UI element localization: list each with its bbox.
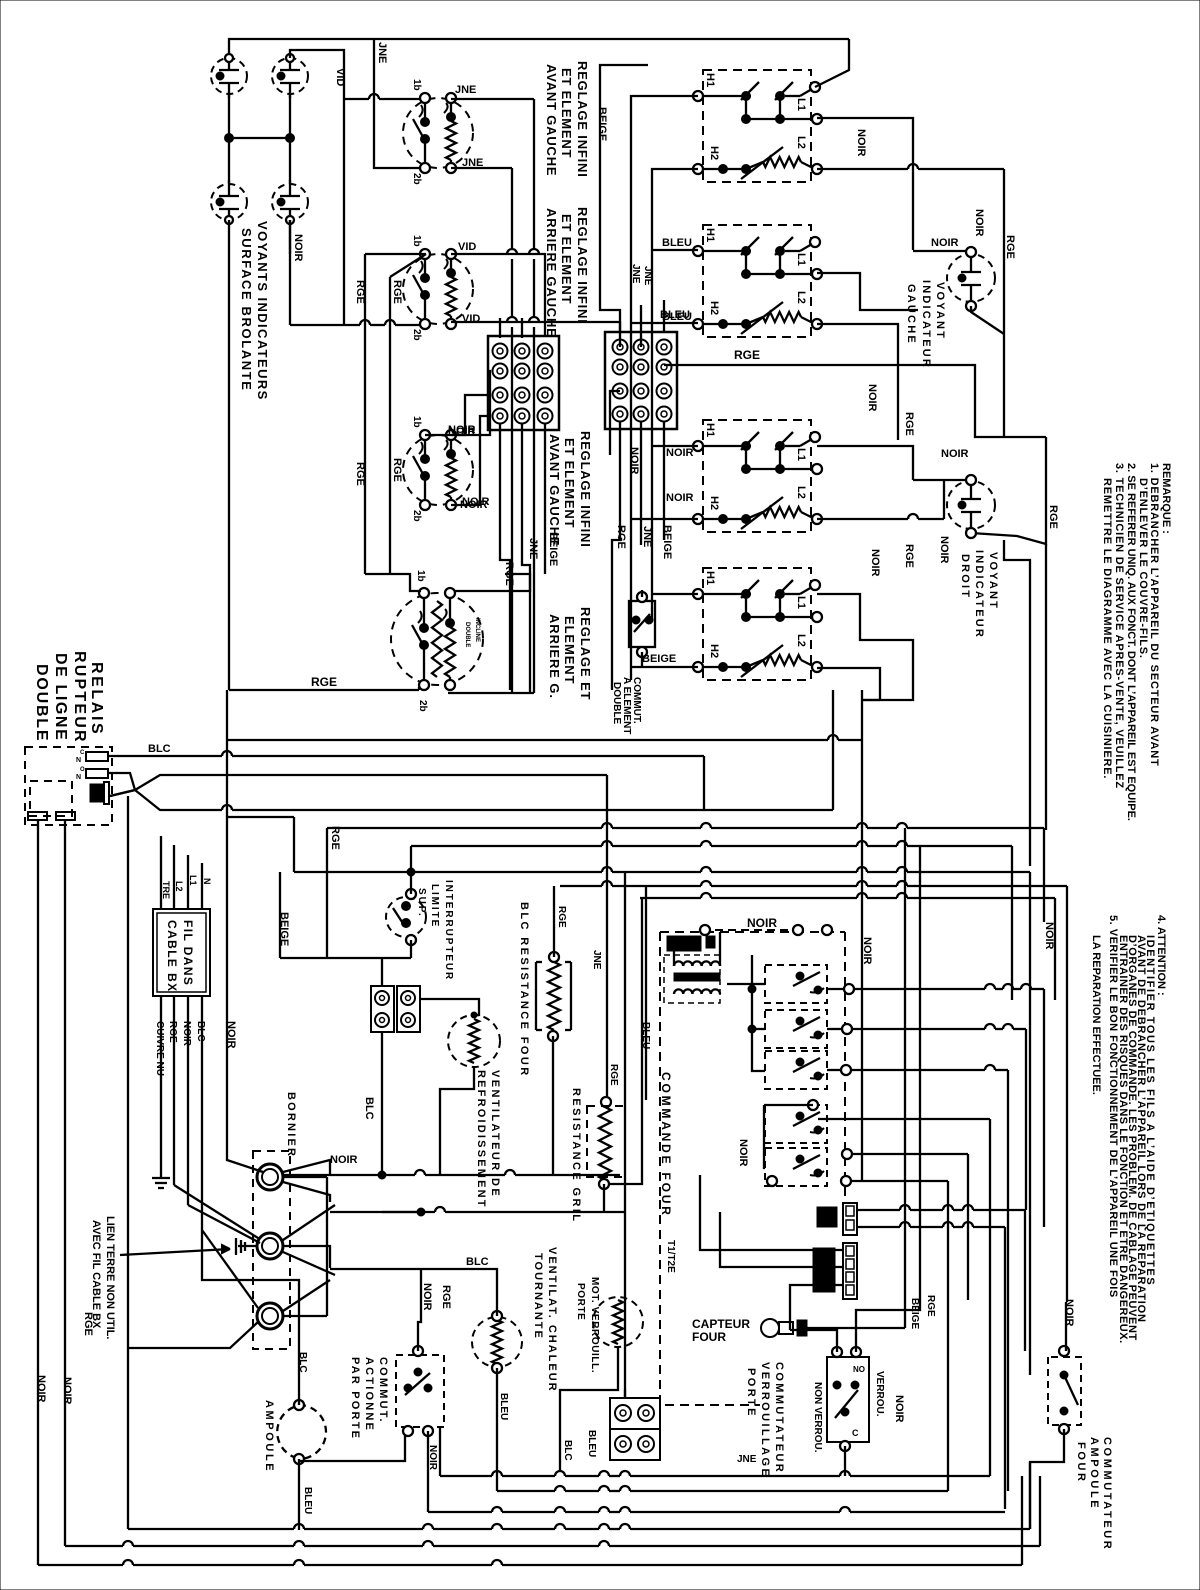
wire S2 2b VID out bbox=[451, 322, 620, 332]
wire stub y817 to x294 bbox=[227, 816, 294, 818]
wire E3 L2 bbox=[817, 518, 908, 520]
svg-text:NO: NO bbox=[853, 1365, 865, 1374]
svg-text:INCLINE: INCLINE bbox=[474, 618, 480, 642]
wire E4 L1 step down bbox=[817, 594, 913, 690]
wire bottom bus y1562 right hook bbox=[1021, 1476, 1023, 1565]
svg-text:RUPTEUR: RUPTEUR bbox=[71, 651, 88, 744]
wire fan chaleur bottom BLEU bbox=[496, 1368, 498, 1491]
svg-text:BLC: BLC bbox=[195, 1021, 206, 1042]
wire drops from E boxes to risers bbox=[862, 690, 913, 700]
svg-text:RGE: RGE bbox=[734, 348, 760, 362]
svg-text:REGLAGE ET: REGLAGE ET bbox=[578, 607, 593, 701]
wire NOIR riser x862 long bbox=[861, 740, 863, 1181]
svg-text:AVANT GAUCHE: AVANT GAUCHE bbox=[544, 64, 559, 176]
svg-text:NOIR: NOIR bbox=[292, 234, 304, 262]
svg-text:L1: L1 bbox=[795, 596, 807, 609]
svg-text:NOIR: NOIR bbox=[330, 1154, 358, 1166]
svg-text:NOIR: NOIR bbox=[931, 237, 959, 249]
transformer box dashed bbox=[664, 955, 720, 1003]
wire JNE riser x607 bbox=[606, 775, 608, 1102]
transformer T1 core bars bbox=[674, 973, 720, 981]
wire bottom bus y1476 bbox=[439, 1427, 441, 1476]
svg-text:H2: H2 bbox=[708, 644, 720, 658]
wire lamp DS4 drop long bbox=[289, 220, 291, 325]
svg-text:BLEU: BLEU bbox=[498, 1393, 509, 1420]
wire fan from bornier T1 bbox=[283, 1160, 330, 1175]
wire commut double links bbox=[641, 652, 643, 667]
wire JNE top rail bbox=[229, 39, 849, 58]
wire resistance four top RGE bbox=[553, 886, 555, 957]
svg-text:LIEN TERRE NON UTIL.: LIEN TERRE NON UTIL. bbox=[104, 1216, 116, 1339]
svg-text:BLC RESISTANCE FOUR: BLC RESISTANCE FOUR bbox=[518, 902, 530, 1078]
svg-text:VOYANT: VOYANT bbox=[934, 282, 946, 340]
svg-text:RGE: RGE bbox=[556, 906, 567, 928]
wire diagonal into T2 from left bbox=[174, 1185, 258, 1238]
wire lamp VD top NOIR bbox=[913, 479, 966, 481]
wire lower relay feeds bbox=[764, 1105, 765, 1168]
wire S4 bottom 2b link bbox=[418, 687, 420, 690]
svg-text:PORTE: PORTE bbox=[745, 1368, 757, 1418]
wire ampoule switch riser bbox=[1065, 1302, 1067, 1351]
wire bus step x703 bbox=[703, 756, 705, 811]
element switch box E4 bbox=[703, 568, 811, 680]
svg-text:LIMITE: LIMITE bbox=[429, 884, 440, 928]
wire resistance four bottom bbox=[552, 1036, 554, 1175]
wire fan chaleur top bbox=[496, 1302, 498, 1316]
svg-text:ARRIERE GAUCHE: ARRIERE GAUCHE bbox=[544, 208, 559, 338]
svg-text:BEIGE: BEIGE bbox=[547, 532, 559, 566]
svg-text:VOYANT: VOYANT bbox=[987, 552, 999, 610]
svg-text:COMMUT.: COMMUT. bbox=[377, 1357, 389, 1424]
svg-text:REFROIDISSEMENT: REFROIDISSEMENT bbox=[475, 1070, 487, 1209]
wire bottom bus y1529 right hook bbox=[1029, 1462, 1031, 1529]
svg-text:ACTIONNE: ACTIONNE bbox=[363, 1357, 375, 1432]
svg-text:C: C bbox=[80, 750, 85, 756]
wire bottom bus y1491 bbox=[497, 1490, 555, 1492]
wire S2 VID to block bbox=[451, 254, 545, 336]
wire res gril bottom bbox=[603, 1184, 605, 1212]
wire RGE bottom rail of surface section bbox=[229, 689, 419, 691]
relay terminal O N bbox=[86, 769, 108, 778]
svg-text:ET ELEMENT: ET ELEMENT bbox=[559, 68, 574, 158]
wire ampoule switch bottom bbox=[1030, 1429, 1064, 1529]
wire lamp DS1-DS3 link bbox=[228, 94, 230, 184]
svg-text:FOUR: FOUR bbox=[1075, 1442, 1087, 1484]
connector block CN1 bbox=[371, 986, 394, 1032]
transformer T1 primary coil bbox=[674, 961, 720, 966]
svg-text:VID: VID bbox=[458, 241, 476, 253]
label BLEU riser x646 bbox=[645, 886, 647, 1100]
svg-text:N: N bbox=[76, 774, 81, 781]
wire bus riser x833 from top bbox=[832, 739, 834, 810]
svg-text:NOIR: NOIR bbox=[61, 1377, 73, 1405]
svg-text:C: C bbox=[852, 1428, 859, 1438]
indicator lamp DS3 surface bbox=[211, 184, 247, 220]
wire box E3 H1 feed bbox=[652, 445, 698, 447]
wire E2 L2 RGE bbox=[817, 324, 898, 440]
wire capteur to risers bbox=[807, 1327, 905, 1329]
svg-text:DE LIGNE: DE LIGNE bbox=[52, 653, 69, 741]
wire limite sup riser bbox=[410, 846, 412, 894]
svg-text:N: N bbox=[202, 878, 212, 885]
svg-text:H1: H1 bbox=[704, 228, 716, 242]
svg-text:BLEU: BLEU bbox=[662, 237, 692, 249]
svg-text:RELAIS: RELAIS bbox=[88, 662, 105, 736]
wire B11 lines bbox=[700, 1175, 843, 1250]
wire bus line y740 bbox=[227, 739, 828, 741]
wire VID lamp DS2 riser bbox=[290, 50, 344, 325]
transformer T1 connector blobs bbox=[667, 936, 701, 951]
svg-text:T1/T2E: T1/T2E bbox=[665, 1240, 676, 1273]
indicator lamp DS4 surface bbox=[272, 184, 308, 220]
svg-text:L2: L2 bbox=[795, 136, 807, 149]
svg-text:2b: 2b bbox=[417, 700, 428, 712]
svg-text:NOIR: NOIR bbox=[737, 1139, 749, 1167]
wire bottom rail y1212 bbox=[382, 1211, 435, 1213]
relay K1 coil box bbox=[30, 781, 72, 816]
svg-text:L1: L1 bbox=[795, 448, 807, 461]
wire beige riser left of boxes bbox=[631, 96, 698, 680]
wire bornier riser x327 bbox=[326, 1177, 328, 1316]
svg-text:MOT. VERROUILL.: MOT. VERROUILL. bbox=[589, 1277, 600, 1373]
wire ampoule to commut porte bbox=[299, 1427, 405, 1461]
wire ampoule bottom BLEU bbox=[298, 1459, 300, 1530]
wire rail to bus vertical bbox=[226, 690, 228, 741]
connector B11B11 bbox=[843, 1243, 857, 1299]
wire left bus vertical x294 bbox=[293, 817, 295, 872]
wire motor down bbox=[560, 1347, 618, 1472]
commutateur ampoule four switch bbox=[1048, 1357, 1081, 1425]
wire risers to S4 1b bbox=[365, 574, 421, 591]
relay contact group lower bbox=[765, 1105, 827, 1143]
commutateur verrouillage porte switch bbox=[827, 1357, 869, 1442]
wire E11 lines bbox=[857, 1209, 900, 1211]
wire relay to bottom left NOIR 2 bbox=[64, 820, 66, 1546]
wire box E3 H2 feed bbox=[631, 518, 698, 520]
svg-text:NOIR: NOIR bbox=[448, 426, 476, 438]
infinite switch S3 avant droit bbox=[403, 435, 473, 505]
wire ampoule top BLC bbox=[298, 1380, 300, 1405]
svg-text:D’ENLEVER LE COUVRE-FILS.: D’ENLEVER LE COUVRE-FILS. bbox=[1137, 478, 1149, 659]
svg-text:REGLAGE INFINI: REGLAGE INFINI bbox=[575, 61, 590, 178]
infinite switch S2 arriere gauche bbox=[403, 254, 473, 324]
indicator lamp DS2 surface bbox=[272, 58, 308, 94]
terminal block TB2 bbox=[605, 332, 677, 429]
svg-text:INTERRUPTEUR: INTERRUPTEUR bbox=[443, 880, 454, 981]
connector block CN2 bbox=[397, 986, 420, 1032]
svg-text:L2: L2 bbox=[174, 881, 184, 892]
svg-text:SURFACE BROLANTE: SURFACE BROLANTE bbox=[239, 228, 254, 392]
svg-text:H2: H2 bbox=[708, 146, 720, 160]
svg-text:TOURNANTE: TOURNANTE bbox=[532, 1253, 544, 1340]
svg-text:DOUBLE: DOUBLE bbox=[33, 664, 50, 742]
svg-text:NOIR: NOIR bbox=[973, 209, 985, 237]
svg-text:1b: 1b bbox=[415, 570, 426, 582]
wire top rail drop to switch S1 2b bbox=[374, 39, 421, 168]
wire verrou top feeds bbox=[790, 1330, 837, 1352]
svg-text:VENTILAT. CHALEUR: VENTILAT. CHALEUR bbox=[546, 1247, 558, 1393]
junction dots lamps bbox=[225, 134, 234, 143]
svg-text:INDICATEUR: INDICATEUR bbox=[920, 280, 932, 369]
wire riser x905 x920 top bbox=[904, 828, 906, 1328]
svg-text:L1: L1 bbox=[795, 253, 807, 266]
svg-text:RGE: RGE bbox=[1004, 235, 1016, 259]
svg-text:RGE: RGE bbox=[608, 1064, 619, 1086]
svg-text:2b: 2b bbox=[411, 173, 422, 185]
capteur four sensor bbox=[761, 1319, 779, 1337]
svg-text:1b: 1b bbox=[411, 416, 422, 428]
wire bus verticals right bbox=[1029, 872, 1031, 1375]
svg-text:NOIR: NOIR bbox=[861, 937, 873, 965]
wire riser x652 bbox=[652, 169, 698, 620]
wires out of cable box bottom bbox=[160, 996, 162, 1160]
svg-text:L2: L2 bbox=[795, 291, 807, 304]
relay K1 dashed box bbox=[25, 747, 112, 825]
wire S3 2b NOIR bbox=[451, 416, 488, 505]
svg-text:ET ELEMENT: ET ELEMENT bbox=[559, 214, 574, 304]
wire JNE line bbox=[624, 1390, 626, 1398]
ventilateur de refroidissement fan bbox=[448, 1015, 500, 1067]
svg-text:LA REPARATION EFFECTUEE.: LA REPARATION EFFECTUEE. bbox=[1090, 935, 1102, 1095]
wire NOIR dashed to relays bbox=[715, 929, 790, 931]
svg-text:REMARQUE :: REMARQUE : bbox=[1160, 463, 1172, 534]
ground symbol at bornier bbox=[238, 1245, 257, 1247]
svg-text:NOIR: NOIR bbox=[666, 492, 694, 504]
wire transformer terminals bbox=[700, 925, 710, 935]
svg-text:BEIGE: BEIGE bbox=[909, 1298, 920, 1329]
wire bus line y775 step x607 bbox=[227, 774, 607, 776]
wire bus line y886 bbox=[560, 885, 602, 887]
svg-text:NOIR: NOIR bbox=[35, 1375, 47, 1403]
svg-text:H1: H1 bbox=[704, 571, 716, 585]
wire diagonal into T3 from left bbox=[202, 1230, 258, 1308]
svg-text:AVEC FIL CABLE BX: AVEC FIL CABLE BX bbox=[90, 1220, 102, 1329]
wire bottom bus y1546 right hook bbox=[1039, 1476, 1041, 1546]
wires under TB2 bbox=[612, 421, 620, 690]
wire E4 L2 down bbox=[817, 668, 880, 700]
svg-text:BLEU: BLEU bbox=[586, 1430, 597, 1457]
wire y958 link bbox=[280, 957, 411, 959]
wire RGE riser B bbox=[390, 254, 426, 277]
svg-text:PAR PORTE: PAR PORTE bbox=[349, 1357, 361, 1440]
svg-text:RGE: RGE bbox=[354, 280, 366, 304]
svg-text:CUIVRE NU: CUIVRE NU bbox=[154, 1021, 165, 1076]
svg-text:COMMUTATEUR: COMMUTATEUR bbox=[773, 1362, 785, 1474]
svg-text:CABLE BX: CABLE BX bbox=[165, 920, 179, 993]
terminal block TB1 bbox=[488, 336, 559, 430]
wire connector feed bbox=[381, 958, 383, 986]
wire BLC relay to bus bbox=[108, 755, 222, 757]
wire box E4 H2 feed bbox=[631, 666, 698, 668]
wire rail y325 bbox=[290, 324, 360, 326]
svg-text:COMMUTATEUR: COMMUTATEUR bbox=[1101, 1437, 1113, 1551]
svg-text:FOUR: FOUR bbox=[692, 1330, 726, 1344]
svg-text:BLEU: BLEU bbox=[302, 1487, 313, 1514]
relay contact blob bbox=[90, 784, 104, 802]
svg-text:RGE: RGE bbox=[903, 412, 915, 436]
element switch box E2 bbox=[703, 225, 811, 337]
svg-text:REGLAGE INFINI: REGLAGE INFINI bbox=[575, 207, 590, 324]
wire E2 L1 step bbox=[817, 273, 918, 310]
wire limite sup down bbox=[410, 940, 412, 958]
wire lamp DS2-DS4 link bbox=[289, 94, 291, 184]
relay contact group upper bbox=[765, 965, 827, 1003]
svg-text:NOIR: NOIR bbox=[938, 536, 950, 564]
element switch box E3 bbox=[703, 420, 811, 532]
wire S4 2b link to risers bbox=[448, 692, 534, 694]
svg-text:NOIR: NOIR bbox=[893, 1395, 905, 1423]
svg-text:REGLAGE INFINI: REGLAGE INFINI bbox=[578, 431, 593, 548]
svg-text:BLC: BLC bbox=[363, 1097, 375, 1120]
wire box E2 H1 feed BLEU bbox=[652, 249, 698, 251]
svg-text:BLC: BLC bbox=[466, 1256, 489, 1268]
wire RGE riser 1046 bbox=[971, 437, 1046, 544]
svg-text:COMMANDE FOUR: COMMANDE FOUR bbox=[659, 1072, 673, 1218]
wire E3 L1 to riser bbox=[817, 446, 913, 480]
svg-text:H2: H2 bbox=[708, 301, 720, 315]
svg-text:BLEU: BLEU bbox=[662, 311, 692, 323]
svg-text:RGE: RGE bbox=[311, 675, 337, 689]
ventilat chaleur tournante fan bbox=[472, 1317, 522, 1367]
svg-text:VERROU.: VERROU. bbox=[874, 1371, 885, 1417]
indicator lamp DS1 surface bbox=[211, 58, 247, 94]
svg-text:L2: L2 bbox=[795, 634, 807, 647]
svg-text:JNE: JNE bbox=[455, 84, 476, 96]
wires under TB1 bbox=[500, 423, 510, 690]
svg-text:NOIR: NOIR bbox=[181, 1021, 192, 1047]
wire fan from bornier T2 bbox=[283, 1205, 335, 1240]
svg-text:AMPOULE: AMPOULE bbox=[263, 1400, 275, 1473]
wire S3 right resistor to block bbox=[451, 395, 488, 435]
svg-text:RGE: RGE bbox=[925, 1295, 936, 1317]
svg-text:VERROUILLAGE: VERROUILLAGE bbox=[759, 1362, 771, 1478]
bornier terminal 3 bbox=[257, 1303, 283, 1329]
wire commut porte top bbox=[418, 1269, 421, 1351]
svg-text:VOYANTS INDICATEURS: VOYANTS INDICATEURS bbox=[255, 221, 270, 401]
svg-text:VENTILATEUR DE: VENTILATEUR DE bbox=[489, 1070, 501, 1198]
resistance four resistor bbox=[549, 952, 559, 962]
mot verrouill porte motor bbox=[593, 1297, 643, 1347]
svg-text:NOIR: NOIR bbox=[462, 496, 490, 508]
svg-text:ET ELEMENT: ET ELEMENT bbox=[562, 438, 577, 528]
svg-text:BLC: BLC bbox=[562, 1440, 573, 1461]
wire fan from bornier T3 bbox=[283, 1280, 330, 1311]
svg-text:SUP.: SUP. bbox=[416, 888, 427, 918]
svg-text:RESISTANCE GRIL: RESISTANCE GRIL bbox=[570, 1088, 582, 1223]
svg-text:RGE: RGE bbox=[903, 544, 915, 568]
svg-text:5. VERIFIER LE BON FONCTIONNEM: 5. VERIFIER LE BON FONCTIONNEMENT DE L’A… bbox=[1107, 915, 1119, 1298]
wire bus line y846 bbox=[411, 845, 602, 847]
resistance gril resistor bbox=[601, 1097, 611, 1107]
svg-text:3. TECHNICIEN DE SERVICE APRES: 3. TECHNICIEN DE SERVICE APRES-VENTE, VE… bbox=[1113, 463, 1125, 789]
wire bottom corner to T3 bbox=[127, 1322, 258, 1348]
wire bus drop to control x642 bbox=[610, 897, 642, 1184]
wire lamp junction row bbox=[229, 137, 290, 139]
bornier terminal 2 bbox=[257, 1233, 283, 1259]
svg-text:DOUBLE: DOUBLE bbox=[464, 622, 470, 647]
wire bornier out BLC y1269 bbox=[330, 1269, 497, 1302]
commande four dashed box right bbox=[844, 932, 846, 1200]
wire bottom bus y1509 bbox=[427, 1431, 429, 1512]
wire bus line y898 bbox=[640, 897, 701, 899]
interrupteur limite sup switch bbox=[386, 897, 426, 937]
svg-text:O: O bbox=[80, 767, 85, 773]
svg-text:JNE: JNE bbox=[737, 1454, 757, 1465]
svg-text:2b: 2b bbox=[411, 329, 422, 341]
wire relay right terminals bbox=[844, 984, 854, 994]
wire verrou bottom bbox=[844, 1446, 846, 1476]
svg-text:L1: L1 bbox=[188, 875, 198, 886]
connector block pair CN3 bbox=[610, 1398, 660, 1429]
svg-text:NOIR: NOIR bbox=[941, 448, 969, 460]
wire bus line y810 bbox=[232, 809, 833, 811]
ampoule lamp bbox=[299, 1405, 326, 1459]
ground symbol left of bornier bbox=[160, 1160, 162, 1178]
relay bottom terminal 1 bbox=[28, 812, 47, 820]
connector E11 bbox=[843, 1203, 857, 1235]
bornier dashed box bbox=[253, 1151, 290, 1349]
svg-text:CAPTEUR: CAPTEUR bbox=[692, 1317, 750, 1331]
svg-text:NOIR: NOIR bbox=[666, 447, 694, 459]
svg-text:2. SE REFERER UNIQ. AUX FONCT.: 2. SE REFERER UNIQ. AUX FONCT. DONT L’AP… bbox=[1125, 463, 1137, 821]
wire CN1 down bbox=[381, 1032, 383, 1175]
svg-text:NOIR: NOIR bbox=[628, 447, 640, 475]
svg-text:RGE: RGE bbox=[440, 1285, 452, 1309]
wire bornier NOIR y1212 步 bbox=[330, 1211, 421, 1213]
svg-text:VID: VID bbox=[462, 313, 480, 325]
svg-text:NOIR: NOIR bbox=[1063, 1299, 1075, 1327]
svg-text:BLC: BLC bbox=[148, 743, 171, 755]
svg-text:AVANT GAUCHE: AVANT GAUCHE bbox=[547, 434, 562, 546]
svg-text:NOIR: NOIR bbox=[855, 129, 867, 157]
svg-text:ELEMENT: ELEMENT bbox=[562, 616, 577, 684]
wire relay N fan bbox=[108, 773, 135, 796]
commande four dashed box top bbox=[660, 931, 845, 933]
svg-text:FIL DANS: FIL DANS bbox=[181, 920, 195, 986]
box FIL DANS CABLE BX bbox=[153, 909, 210, 996]
svg-text:BEIGE: BEIGE bbox=[661, 525, 673, 559]
wire ampoule from bus BLC bbox=[202, 1230, 299, 1380]
svg-text:JNE: JNE bbox=[376, 42, 388, 63]
svg-text:RGE: RGE bbox=[391, 280, 403, 304]
wire S3 1b NOIR bbox=[425, 371, 490, 435]
transformer T1 secondary coil bbox=[674, 989, 720, 994]
indicator lamp VOYANT INDICATEUR DROIT bbox=[947, 481, 995, 529]
svg-text:1b: 1b bbox=[411, 79, 422, 91]
svg-text:BORNIER: BORNIER bbox=[285, 1092, 297, 1158]
connector block pair CN4 bbox=[610, 1429, 660, 1460]
wire bus line y872 bbox=[294, 871, 602, 873]
wire BLC capteur line bbox=[507, 1211, 625, 1213]
wires into cable box top bbox=[160, 836, 162, 909]
bornier terminal 1 bbox=[257, 1164, 283, 1190]
svg-text:ARRIERE G.: ARRIERE G. bbox=[547, 614, 562, 699]
wire relay riser x128 to bottom bus bbox=[127, 796, 129, 1529]
wire relay left feeds bbox=[752, 955, 765, 1071]
wire RGE riser x327 bbox=[326, 828, 328, 958]
svg-text:AMPOULE: AMPOULE bbox=[1088, 1437, 1100, 1510]
commut actionne par porte switch bbox=[396, 1355, 444, 1427]
infinite switch S4 double element arriere droit bbox=[391, 593, 483, 685]
element switch box E1 bbox=[703, 70, 811, 182]
wire S1 1b feed bbox=[344, 98, 369, 100]
wires above TB2 bbox=[600, 65, 648, 347]
svg-text:L2: L2 bbox=[795, 486, 807, 499]
svg-text:RGE: RGE bbox=[329, 826, 341, 850]
second resistor inside S4 bbox=[432, 601, 442, 677]
dashed drop from control to capteur bbox=[660, 1200, 760, 1405]
wire riser x625 bbox=[624, 872, 626, 1398]
